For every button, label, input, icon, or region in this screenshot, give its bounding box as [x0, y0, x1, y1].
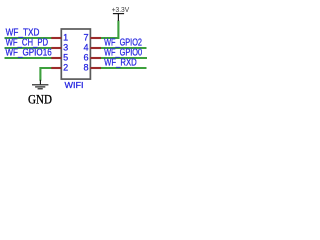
- svg-text:6: 6: [84, 53, 89, 63]
- wire: [101, 47, 147, 49]
- component U WIFI body: [61, 29, 90, 79]
- svg-text:WF_GPIO16: WF_GPIO16: [5, 48, 52, 59]
- pin 5: [51, 57, 61, 59]
- pin 8: [90, 67, 101, 69]
- svg-text:2: 2: [63, 63, 68, 73]
- pin 6: [90, 57, 101, 59]
- pin 3: [51, 47, 61, 49]
- svg-text:8: 8: [84, 63, 89, 73]
- pin 1: [51, 37, 61, 39]
- svg-text:GND: GND: [28, 92, 52, 107]
- svg-text:4: 4: [84, 43, 89, 53]
- svg-text:+3.3V: +3.3V: [112, 5, 130, 14]
- wire: [101, 67, 147, 69]
- pin 2: [51, 67, 61, 69]
- wire: [5, 37, 53, 39]
- svg-text:1: 1: [63, 33, 68, 43]
- wire: [5, 47, 53, 49]
- svg-text:WF_RXD: WF_RXD: [104, 58, 137, 69]
- pin 4: [90, 47, 101, 49]
- ground symbol: [32, 80, 48, 89]
- svg-text:5: 5: [63, 53, 68, 63]
- svg-text:3: 3: [63, 43, 68, 53]
- svg-text:WIFI: WIFI: [65, 80, 84, 90]
- wire: [40, 68, 52, 81]
- wire: [5, 57, 53, 59]
- power +3.3V symbol: [113, 14, 124, 21]
- pin 7: [90, 37, 101, 39]
- wire: [101, 21, 118, 39]
- svg-text:7: 7: [84, 33, 89, 43]
- wire: [101, 57, 147, 59]
